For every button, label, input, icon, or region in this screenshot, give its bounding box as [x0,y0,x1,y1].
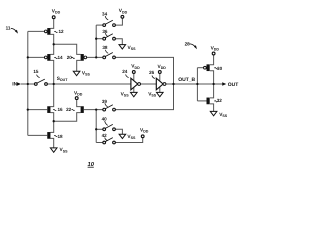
svg-text:38: 38 [102,45,108,50]
svg-text:18: 18 [57,134,63,139]
svg-text:16: 16 [57,107,63,112]
svg-text:VSS: VSS [82,70,91,76]
svg-text:42: 42 [102,133,108,138]
svg-text:24: 24 [122,69,128,74]
svg-text:26: 26 [149,70,155,75]
svg-text:OUT: OUT [228,82,239,88]
svg-text:VSS: VSS [148,91,157,97]
svg-text:VSS: VSS [127,134,136,140]
svg-text:VDD: VDD [52,8,61,14]
svg-text:VDD: VDD [74,91,83,97]
svg-text:VDD: VDD [119,8,128,14]
svg-text:OUT_B: OUT_B [178,77,195,83]
svg-text:VSS: VSS [121,91,130,97]
svg-text:VSS: VSS [219,112,228,118]
svg-text:14: 14 [57,55,63,60]
svg-text:VDD: VDD [140,127,149,133]
svg-text:34: 34 [102,12,108,17]
svg-text:30: 30 [217,66,223,71]
svg-text:22: 22 [66,107,72,112]
svg-text:VDD: VDD [211,45,220,51]
svg-text:39: 39 [102,99,108,104]
svg-text:12: 12 [58,29,64,34]
svg-text:36: 36 [102,29,108,34]
svg-text:40: 40 [102,117,108,122]
svg-text:28: 28 [185,42,191,47]
svg-text:SOUT: SOUT [57,76,69,82]
svg-text:VDD: VDD [158,64,167,70]
svg-text:20: 20 [67,55,73,60]
svg-text:VSS: VSS [60,147,69,153]
svg-text:11: 11 [6,25,11,30]
svg-text:IN: IN [12,82,17,88]
svg-text:VSS: VSS [128,45,137,51]
svg-text:32: 32 [217,98,223,103]
svg-text:15: 15 [33,69,39,74]
svg-text:VDD: VDD [131,64,140,70]
